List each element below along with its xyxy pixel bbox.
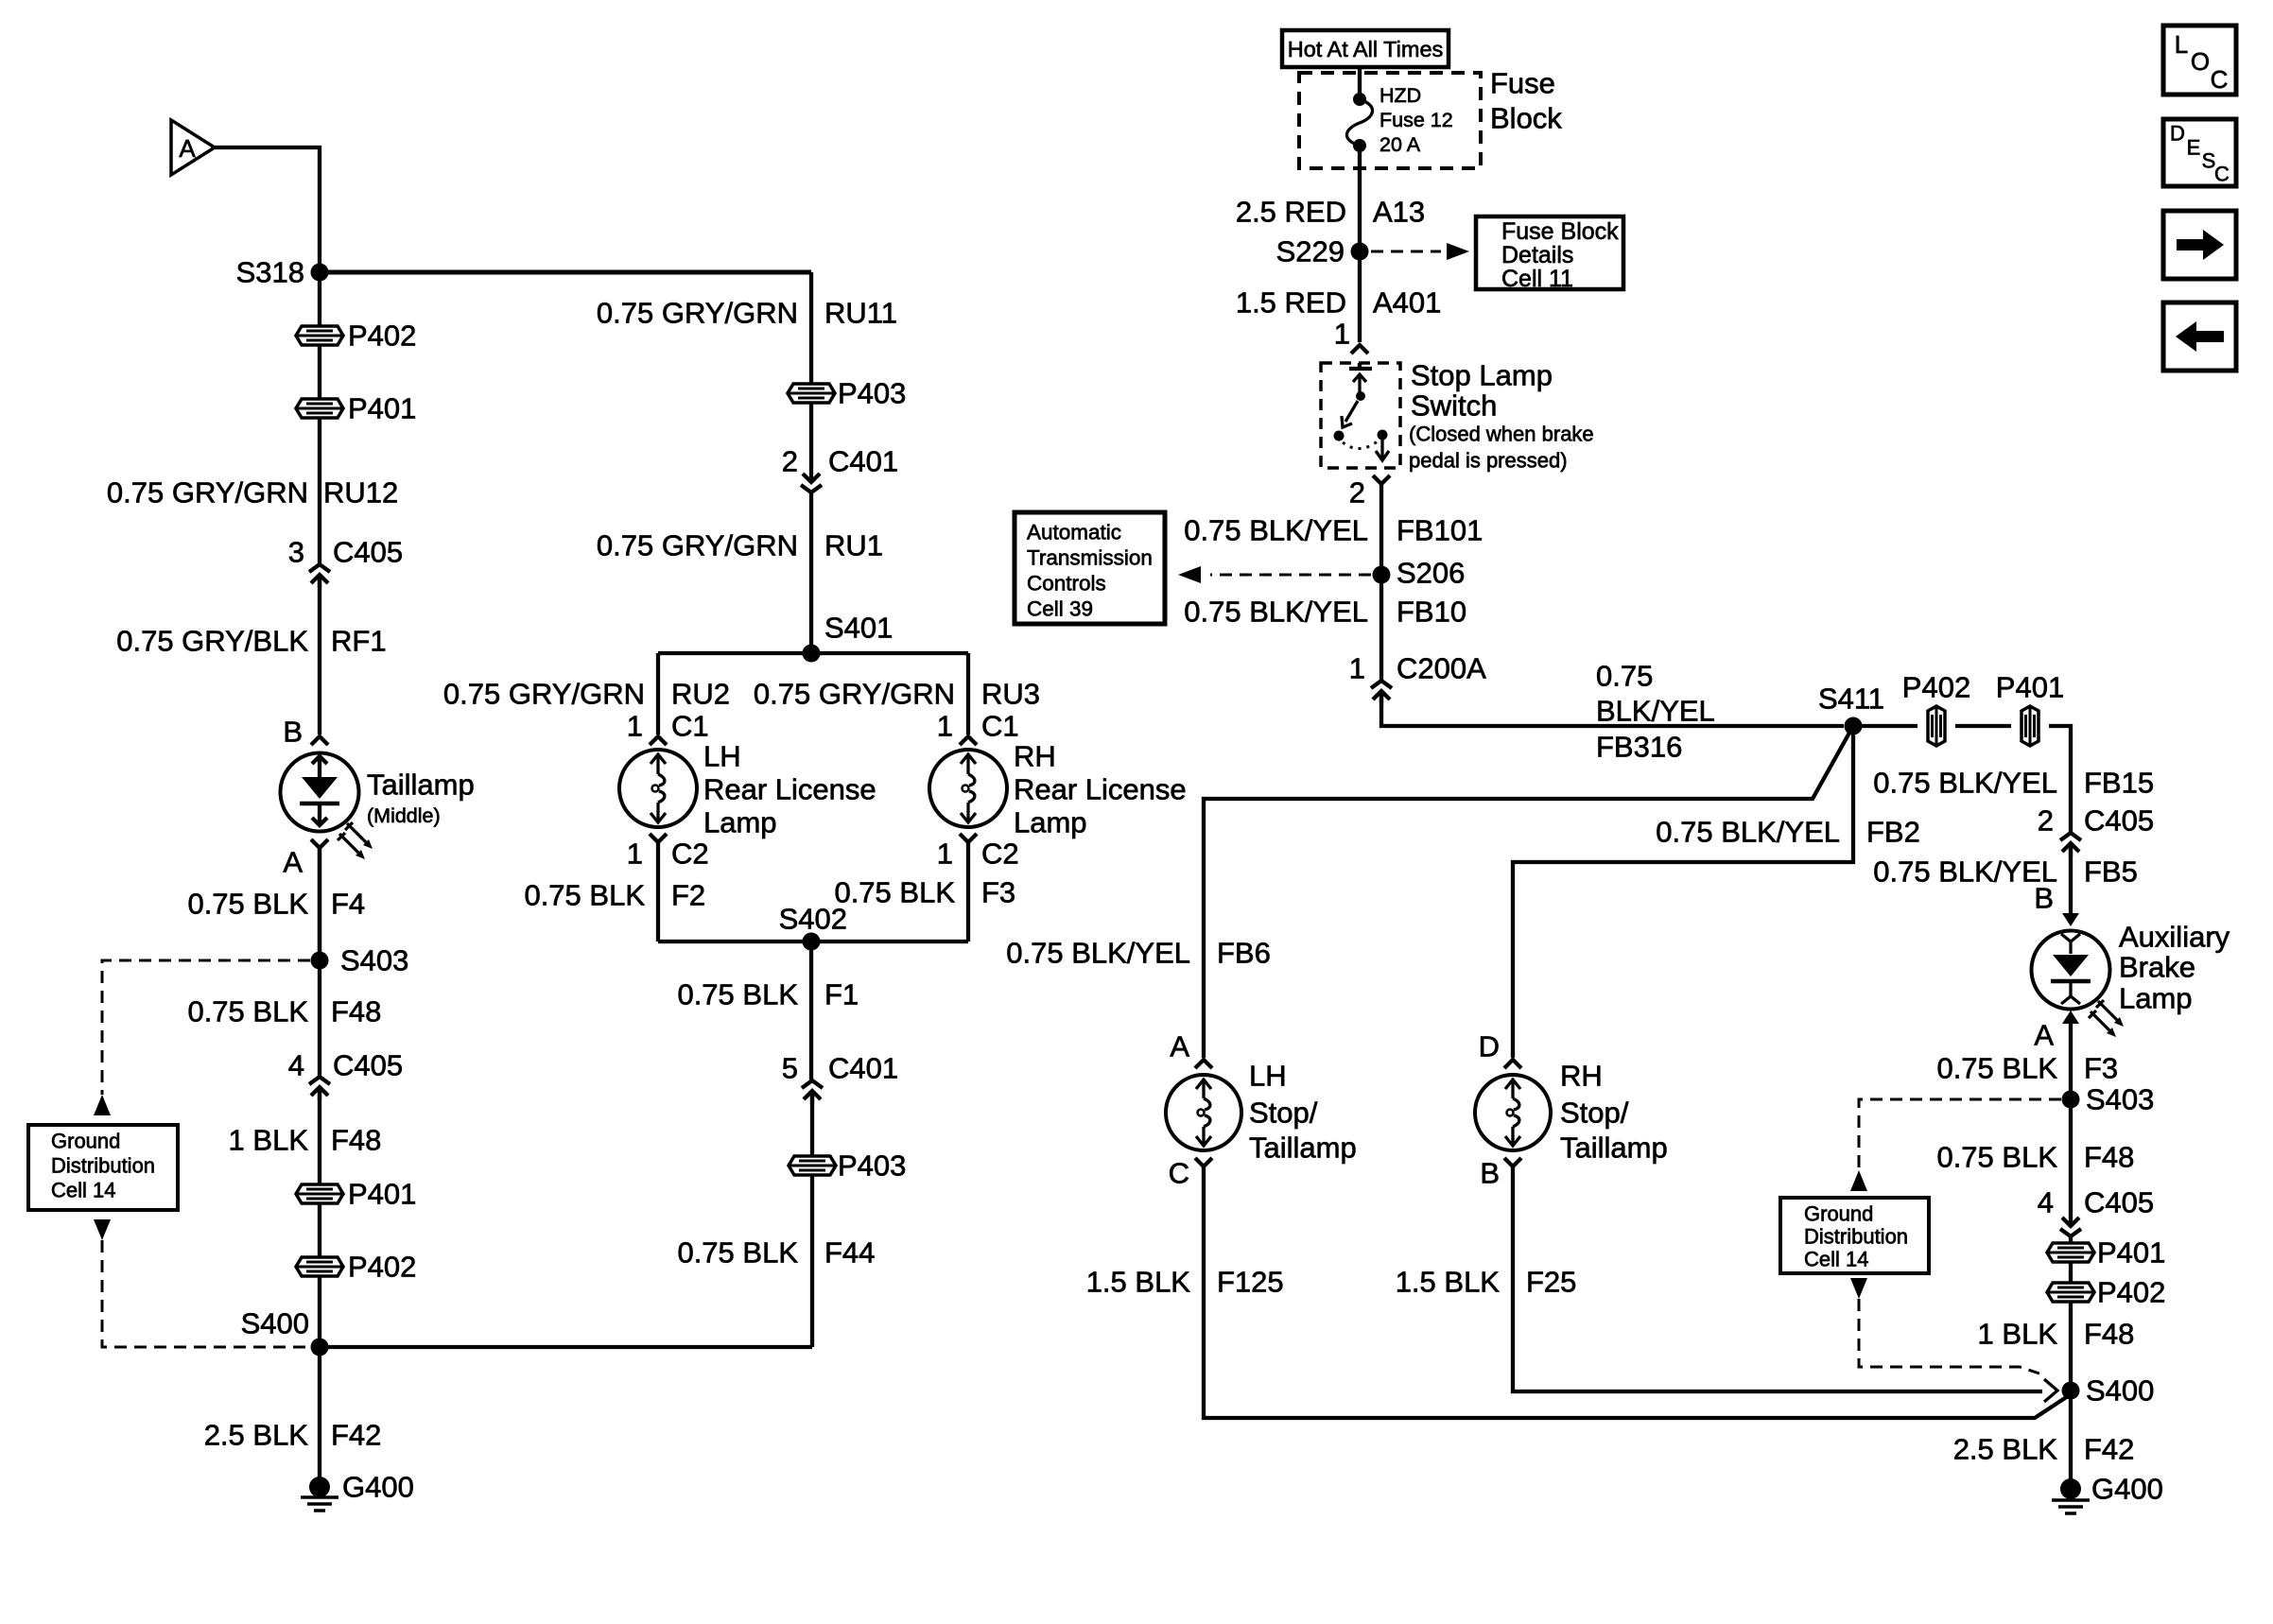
dashed reference S403 to Ground Distribution (right) — [1859, 1099, 2061, 1170]
svg-text:C405: C405 — [333, 1049, 403, 1082]
node S318 — [236, 256, 329, 289]
svg-text:Taillamp: Taillamp — [1249, 1132, 1357, 1165]
svg-text:F125: F125 — [1217, 1266, 1284, 1299]
terminal 1 C2 of RH rear license lamp — [937, 834, 1019, 871]
svg-text:F48: F48 — [2084, 1141, 2134, 1174]
svg-text:A401: A401 — [1373, 286, 1441, 320]
svg-text:Distribution: Distribution — [1804, 1225, 1908, 1249]
connector C401 pin 5 — [782, 1052, 898, 1105]
svg-text:0.75 GRY/GRN: 0.75 GRY/GRN — [597, 297, 798, 330]
svg-text:Cell 39: Cell 39 — [1027, 597, 1093, 621]
svg-text:Taillamp: Taillamp — [1560, 1132, 1668, 1165]
connector P402 (horizontal run) — [1902, 671, 1970, 747]
svg-text:0.75 BLK: 0.75 BLK — [1936, 1141, 2057, 1174]
connector P402 — [296, 320, 416, 353]
svg-text:FB15: FB15 — [2084, 767, 2154, 800]
arrowhead down from Ground Distribution box — [94, 1219, 111, 1240]
svg-text:0.75 GRY/GRN: 0.75 GRY/GRN — [107, 476, 308, 510]
svg-text:4: 4 — [2038, 1186, 2054, 1219]
wire bus into S402 — [658, 940, 968, 943]
wire FB15 0.75 BLK/YEL — [2049, 726, 2071, 832]
dashed reference S403 to Ground Distribution — [102, 960, 310, 1095]
label 0.75 BLK/YEL FB15 — [1873, 767, 2154, 800]
svg-text:C2: C2 — [981, 838, 1019, 871]
wire FB10 0.75 BLK/YEL — [1379, 575, 1383, 680]
connector C200A pin 1 — [1349, 652, 1486, 705]
label 1.5 BLK F125 — [1086, 1266, 1284, 1299]
ground G400 (right) — [2052, 1473, 2163, 1514]
svg-text:BLK/YEL: BLK/YEL — [1596, 695, 1715, 728]
svg-text:P401: P401 — [348, 1178, 416, 1211]
svg-text:1: 1 — [937, 710, 953, 743]
dashed arrow S229 to Fuse Block Details — [1371, 251, 1441, 253]
svg-text:D: D — [2170, 122, 2185, 146]
svg-text:5: 5 — [782, 1052, 798, 1085]
svg-text:F4: F4 — [331, 888, 365, 921]
wire F44 0.75 BLK — [810, 1175, 814, 1347]
wire F48 0.75 BLK (right) — [2069, 1099, 2073, 1213]
svg-text:Cell 11: Cell 11 — [1501, 266, 1573, 292]
fuse HZD Fuse 12 20 A — [1346, 67, 1452, 156]
label 0.75 GRY/GRN RU1 — [597, 529, 883, 562]
svg-text:S229: S229 — [1276, 235, 1345, 268]
connector C405 pin 4 (right) — [2038, 1186, 2154, 1237]
wire F125 1.5 BLK to S400 — [1204, 1166, 2071, 1418]
label 0.75 BLK F48 (right) — [1936, 1141, 2134, 1174]
svg-text:B: B — [283, 716, 303, 749]
svg-text:0.75 BLK/YEL: 0.75 BLK/YEL — [1006, 937, 1190, 970]
wire S318 bus to middle column — [320, 270, 811, 275]
chevron into S400 — [2044, 1379, 2057, 1402]
node S400 (left) — [241, 1307, 329, 1356]
svg-text:P403: P403 — [838, 1149, 906, 1183]
svg-text:S206: S206 — [1397, 557, 1465, 590]
svg-text:P402: P402 — [1902, 671, 1970, 704]
label 2.5 RED A13 — [1236, 196, 1425, 229]
label 2.5 BLK F42 — [204, 1419, 382, 1452]
svg-text:0.75 BLK: 0.75 BLK — [677, 1236, 798, 1270]
wire to P403 (lower) — [810, 1093, 814, 1156]
wire A13 2.5 RED — [1358, 146, 1362, 342]
terminal 1 of stop lamp switch — [1334, 318, 1368, 354]
svg-text:E: E — [2187, 136, 2201, 160]
svg-text:2.5 BLK: 2.5 BLK — [1953, 1433, 2058, 1466]
svg-text:Rear License: Rear License — [1014, 773, 1187, 806]
box Ground Distribution Cell 14 (right) — [1780, 1198, 1929, 1273]
svg-text:2: 2 — [782, 445, 798, 478]
terminal 1 C1 of RH rear license lamp — [937, 710, 1019, 746]
svg-text:Fuse Block: Fuse Block — [1501, 218, 1619, 245]
wire F2 0.75 BLK — [656, 842, 660, 942]
node S400 (right) — [2062, 1374, 2155, 1408]
svg-text:0.75 GRY/GRN: 0.75 GRY/GRN — [754, 678, 955, 711]
connector C405 pin 3 — [288, 536, 403, 589]
terminal C of LH stop/taillamp — [1169, 1157, 1212, 1190]
svg-text:F3: F3 — [2084, 1052, 2118, 1085]
svg-text:Stop/: Stop/ — [1560, 1097, 1629, 1130]
label 1 BLK F48 (right) — [1978, 1318, 2135, 1351]
svg-text:S403: S403 — [340, 944, 408, 977]
svg-text:RF1: RF1 — [331, 625, 387, 658]
svg-text:1.5 BLK: 1.5 BLK — [1396, 1266, 1501, 1299]
svg-text:P401: P401 — [2097, 1236, 2165, 1270]
lamp: RH Rear License Lamp — [929, 740, 1187, 839]
wire from triangle A to S318 — [215, 147, 320, 268]
label 0.75 BLK F44 — [677, 1236, 875, 1270]
arrowhead up to Ground Distribution box — [94, 1095, 111, 1115]
node S401 — [803, 612, 894, 663]
label Fuse Block — [1490, 67, 1562, 135]
node S402 — [779, 903, 847, 951]
label 0.75 BLK F3 (right) — [1936, 1052, 2118, 1085]
label 0.75 BLK/YEL FB6 — [1006, 937, 1271, 970]
svg-text:FB101: FB101 — [1397, 514, 1483, 547]
label 0.75 BLK F4 — [187, 888, 365, 921]
wire F48 1 BLK (right) — [2069, 1302, 2073, 1487]
svg-text:RH: RH — [1560, 1060, 1603, 1093]
svg-text:O: O — [2191, 47, 2210, 76]
lamp: LH Stop/Taillamp — [1166, 1060, 1357, 1165]
svg-text:F44: F44 — [824, 1236, 875, 1270]
svg-text:Details: Details — [1501, 242, 1573, 268]
svg-text:F1: F1 — [824, 978, 859, 1011]
svg-text:0.75 BLK: 0.75 BLK — [1936, 1052, 2057, 1085]
svg-text:1: 1 — [1334, 318, 1350, 351]
wire F48 0.75 BLK — [318, 848, 321, 1076]
svg-text:FB10: FB10 — [1397, 596, 1466, 629]
connector P401 (horizontal run) — [1996, 671, 2064, 747]
wire P402 through S400 to G400 — [318, 1276, 321, 1487]
box Automatic Transmission Controls Cell 39 — [1015, 512, 1165, 624]
label 0.75 GRY/GRN RU2 — [443, 678, 730, 711]
svg-text:Automatic: Automatic — [1027, 521, 1121, 544]
svg-text:C1: C1 — [981, 710, 1019, 743]
svg-text:1 BLK: 1 BLK — [1978, 1318, 2058, 1351]
dashed arrow S206 to Automatic Transmission Controls — [1210, 574, 1371, 577]
svg-text:C2: C2 — [671, 838, 709, 871]
svg-text:(Middle): (Middle) — [367, 804, 441, 827]
arrowhead down from Ground Distribution box (right) — [1850, 1278, 1867, 1299]
terminal B of RH stop/taillamp — [1480, 1157, 1521, 1190]
wire FB5 0.75 BLK/YEL — [2069, 845, 2073, 913]
ground G400 (left) — [301, 1471, 414, 1512]
terminal 1 C2 of LH rear license lamp — [627, 834, 709, 871]
svg-text:RU2: RU2 — [671, 678, 730, 711]
svg-text:FB2: FB2 — [1866, 816, 1920, 849]
wire RU1 0.75 GRY/GRN — [809, 493, 813, 653]
terminal A of taillamp — [283, 839, 328, 879]
label 0.75 GRY/BLK RF1 — [116, 625, 386, 658]
label 0.75 BLK F3 — [834, 876, 1015, 909]
svg-text:A: A — [283, 846, 303, 879]
svg-text:F25: F25 — [1526, 1266, 1576, 1299]
svg-text:P402: P402 — [348, 1251, 416, 1284]
wire FB6 0.75 BLK/YEL from S411 to LH stop/taillamp — [1204, 726, 1853, 1058]
svg-text:P403: P403 — [838, 377, 906, 410]
svg-text:0.75 BLK/YEL: 0.75 BLK/YEL — [1656, 816, 1840, 849]
label Stop Lamp Switch — [1409, 359, 1594, 473]
svg-text:0.75 BLK: 0.75 BLK — [187, 995, 308, 1028]
svg-text:Brake: Brake — [2119, 951, 2195, 984]
svg-text:Cell 14: Cell 14 — [51, 1179, 115, 1202]
svg-text:3: 3 — [288, 536, 304, 569]
dashed reference to S400 (right) — [1859, 1299, 2039, 1373]
svg-text:Hot At All Times: Hot At All Times — [1288, 37, 1444, 61]
connector P403 (upper) — [788, 377, 906, 410]
svg-text:4: 4 — [288, 1049, 304, 1082]
svg-text:Switch: Switch — [1411, 389, 1497, 423]
svg-text:F3: F3 — [981, 876, 1015, 909]
svg-text:0.75 BLK/YEL: 0.75 BLK/YEL — [1873, 767, 2057, 800]
svg-text:20 A: 20 A — [1379, 133, 1421, 156]
svg-text:0.75 BLK: 0.75 BLK — [834, 876, 955, 909]
node S229 — [1276, 235, 1369, 268]
label 2.5 BLK F42 (right) — [1953, 1433, 2135, 1466]
svg-text:pedal is pressed): pedal is pressed) — [1409, 449, 1568, 473]
label 0.75 GRY/GRN RU3 — [754, 678, 1040, 711]
svg-text:Transmission: Transmission — [1027, 546, 1153, 570]
terminal B of auxiliary brake lamp — [2034, 882, 2079, 927]
svg-text:Stop/: Stop/ — [1249, 1097, 1318, 1130]
connector P402 (lower left) — [296, 1251, 416, 1284]
dashed box Stop Lamp Switch — [1321, 363, 1400, 468]
svg-text:2: 2 — [1349, 476, 1365, 510]
legend box LOC — [2163, 26, 2236, 95]
svg-text:C405: C405 — [333, 536, 403, 569]
node S403 (right) — [2062, 1083, 2155, 1116]
box Ground Distribution Cell 14 (left) — [28, 1125, 178, 1210]
wire P402 to P401 — [1955, 724, 2011, 728]
svg-text:P401: P401 — [1996, 671, 2064, 704]
box Fuse Block Details Cell 11 — [1476, 216, 1623, 292]
wire RU12 0.75 GRY/GRN — [318, 418, 321, 563]
svg-text:0.75 GRY/BLK: 0.75 GRY/BLK — [116, 625, 308, 658]
svg-text:F48: F48 — [331, 995, 381, 1028]
svg-text:FB5: FB5 — [2084, 855, 2138, 889]
svg-text:C: C — [1169, 1157, 1189, 1190]
svg-text:P402: P402 — [348, 320, 416, 353]
svg-text:S403: S403 — [2086, 1083, 2154, 1116]
lamp: Auxiliary Brake Lamp — [2032, 921, 2230, 1038]
svg-text:F48: F48 — [2084, 1318, 2134, 1351]
svg-text:S411: S411 — [1818, 682, 1884, 716]
svg-text:F42: F42 — [2084, 1433, 2134, 1466]
label 0.75 GRY/GRN RU12 — [107, 476, 398, 510]
svg-text:RU3: RU3 — [981, 678, 1040, 711]
svg-text:0.75 BLK: 0.75 BLK — [524, 879, 645, 912]
svg-text:Cell 14: Cell 14 — [1804, 1248, 1868, 1271]
label 0.75 BLK F2 — [524, 879, 705, 912]
switch contacts — [1334, 363, 1390, 460]
wire F48 1 BLK — [318, 1089, 321, 1184]
svg-text:2.5 BLK: 2.5 BLK — [204, 1419, 309, 1452]
svg-text:0.75 BLK: 0.75 BLK — [677, 978, 798, 1011]
svg-text:FB316: FB316 — [1596, 731, 1682, 764]
terminal 1 C1 of LH rear license lamp — [627, 710, 709, 746]
wire FB101 0.75 BLK/YEL — [1379, 484, 1383, 575]
svg-text:S402: S402 — [779, 903, 847, 936]
connector P401 (lower left) — [296, 1178, 416, 1211]
svg-text:0.75 BLK/YEL: 0.75 BLK/YEL — [1873, 855, 2057, 889]
svg-text:0.75 GRY/GRN: 0.75 GRY/GRN — [597, 529, 798, 562]
terminal B of taillamp — [283, 716, 328, 749]
svg-text:S400: S400 — [241, 1307, 309, 1340]
label 0.75 BLK/YEL FB101 — [1184, 514, 1483, 547]
svg-text:C: C — [2214, 163, 2230, 186]
svg-text:FB6: FB6 — [1217, 937, 1271, 970]
wire F25 1.5 BLK to S400 — [1513, 1166, 2042, 1391]
svg-text:L: L — [2175, 30, 2188, 59]
wire RF1 0.75 GRY/BLK — [318, 577, 321, 734]
svg-text:1: 1 — [937, 838, 953, 871]
dashed box Fuse Block — [1299, 73, 1481, 168]
terminal A of LH stop/taillamp — [1170, 1030, 1212, 1069]
label 0.75 BLK F48 — [187, 995, 381, 1028]
svg-text:D: D — [1479, 1030, 1500, 1063]
svg-text:A13: A13 — [1373, 196, 1425, 229]
svg-text:RU11: RU11 — [824, 297, 897, 330]
svg-text:HZD: HZD — [1379, 84, 1421, 107]
svg-text:F42: F42 — [331, 1419, 381, 1452]
svg-text:1.5 BLK: 1.5 BLK — [1086, 1266, 1191, 1299]
svg-text:Taillamp: Taillamp — [367, 769, 475, 802]
svg-text:Lamp: Lamp — [703, 806, 777, 839]
svg-text:Auxiliary: Auxiliary — [2119, 921, 2230, 954]
wire P402 to P401 — [318, 345, 321, 399]
svg-text:1 BLK: 1 BLK — [229, 1124, 309, 1157]
legend box arrow left — [2163, 302, 2236, 371]
connector triangle A (off-page reference) — [171, 120, 215, 175]
wire F1 0.75 BLK — [809, 942, 813, 1080]
node S206 — [1373, 557, 1466, 590]
svg-text:B: B — [2034, 882, 2054, 915]
wire F3 0.75 BLK — [966, 842, 970, 942]
arrowhead up to Ground Distribution box (right) — [1850, 1170, 1867, 1191]
svg-text:Lamp: Lamp — [2119, 982, 2193, 1015]
wire bus S401 to license lamps — [658, 651, 968, 655]
svg-text:Fuse 12: Fuse 12 — [1379, 109, 1453, 131]
wire RU11 0.75 GRY/GRN from S318 bus down — [809, 272, 813, 383]
connector C405 pin 4 — [288, 1049, 403, 1101]
wire F3 0.75 BLK — [2069, 1022, 2073, 1099]
svg-text:Block: Block — [1490, 102, 1562, 135]
wire S411 to P402 — [1853, 724, 1917, 728]
svg-text:P402: P402 — [2097, 1276, 2165, 1309]
wire P401 to P402 (right) — [2069, 1262, 2073, 1283]
svg-text:S400: S400 — [2086, 1374, 2154, 1408]
svg-text:0.75 BLK/YEL: 0.75 BLK/YEL — [1184, 596, 1368, 629]
svg-text:1: 1 — [1349, 652, 1365, 685]
svg-text:(Closed when brake: (Closed when brake — [1409, 423, 1594, 446]
svg-text:Ground: Ground — [51, 1130, 120, 1153]
svg-text:0.75 BLK/YEL: 0.75 BLK/YEL — [1184, 514, 1368, 547]
svg-text:RU1: RU1 — [824, 529, 883, 562]
wire F4 0.75 BLK — [318, 848, 321, 960]
connector P403 (lower) — [789, 1149, 906, 1183]
svg-text:Ground: Ground — [1804, 1202, 1873, 1226]
svg-text:F2: F2 — [671, 879, 705, 912]
svg-text:Rear License: Rear License — [703, 773, 876, 806]
connector P401 — [296, 392, 416, 425]
wire S400 to F44 riser — [320, 1345, 812, 1349]
svg-text:Distribution: Distribution — [51, 1154, 155, 1178]
svg-text:2.5 RED: 2.5 RED — [1236, 196, 1346, 229]
lamp: RH Stop/Taillamp — [1475, 1060, 1668, 1165]
svg-text:S401: S401 — [824, 612, 893, 645]
label 0.75 BLK/YEL FB2 — [1656, 816, 1920, 849]
svg-text:1: 1 — [627, 710, 643, 743]
connector C401 pin 2 — [782, 403, 898, 492]
box Hot At All Times — [1282, 30, 1449, 67]
connector P401 (lower right) — [2047, 1236, 2165, 1270]
svg-text:A: A — [2034, 1019, 2054, 1052]
svg-text:A: A — [1170, 1030, 1189, 1063]
svg-text:F48: F48 — [331, 1124, 381, 1157]
lamp: LH Rear License Lamp — [619, 740, 876, 839]
svg-text:C401: C401 — [828, 1052, 898, 1085]
wire S318 down to P402 — [318, 272, 321, 326]
legend box DESC — [2163, 119, 2236, 186]
wire FB316 0.75 BLK/YEL to S411 — [1381, 693, 1844, 726]
svg-text:LH: LH — [1249, 1060, 1287, 1093]
node S403 — [311, 944, 409, 977]
svg-text:0.75 BLK: 0.75 BLK — [187, 888, 308, 921]
terminal 2 of stop lamp switch — [1349, 475, 1390, 510]
svg-text:RU12: RU12 — [323, 476, 398, 510]
svg-text:Stop Lamp: Stop Lamp — [1411, 359, 1553, 392]
node S411 — [1818, 682, 1884, 735]
svg-text:P401: P401 — [348, 392, 416, 425]
svg-text:Controls: Controls — [1027, 572, 1106, 596]
svg-text:S318: S318 — [236, 256, 304, 289]
dashed reference to S400 — [102, 1240, 308, 1347]
svg-text:C401: C401 — [828, 445, 898, 478]
svg-text:RH: RH — [1014, 740, 1056, 773]
legend box arrow right — [2163, 211, 2236, 279]
connector P402 (lower right) — [2047, 1276, 2165, 1309]
label 0.75 BLK F1 — [677, 978, 859, 1011]
label 0.75 BLK/YEL FB10 — [1184, 596, 1466, 629]
svg-text:C200A: C200A — [1397, 652, 1486, 685]
svg-text:0.75: 0.75 — [1596, 660, 1653, 693]
svg-text:2: 2 — [2038, 804, 2054, 838]
wire FB2 0.75 BLK/YEL from S411 to RH stop/taillamp — [1513, 726, 1853, 1058]
label 1.5 RED A401 — [1236, 286, 1442, 320]
terminal A of auxiliary brake lamp — [2034, 1011, 2079, 1052]
label 0.75 BLK/YEL FB316 — [1596, 660, 1715, 764]
svg-text:1: 1 — [627, 838, 643, 871]
terminal D of RH stop/taillamp — [1479, 1030, 1521, 1069]
label 1 BLK F48 — [229, 1124, 382, 1157]
wire to P401 (right) — [2069, 1237, 2073, 1243]
svg-text:C1: C1 — [671, 710, 709, 743]
svg-text:1.5 RED: 1.5 RED — [1236, 286, 1346, 320]
label 0.75 GRY/GRN RU11 — [597, 297, 897, 330]
label 1.5 BLK F25 — [1396, 1266, 1577, 1299]
svg-text:C405: C405 — [2084, 804, 2154, 838]
svg-text:A: A — [179, 134, 196, 163]
connector C405 pin 2 — [2038, 804, 2154, 857]
lamp: Taillamp (Middle) — [281, 753, 475, 860]
svg-text:C: C — [2211, 65, 2229, 94]
svg-text:0.75 GRY/GRN: 0.75 GRY/GRN — [443, 678, 645, 711]
svg-text:G400: G400 — [342, 1471, 414, 1504]
svg-text:C405: C405 — [2084, 1186, 2154, 1219]
svg-text:Fuse: Fuse — [1490, 67, 1555, 100]
svg-text:B: B — [1480, 1157, 1500, 1190]
wire P401 to P402 — [318, 1203, 321, 1257]
svg-text:LH: LH — [703, 740, 741, 773]
